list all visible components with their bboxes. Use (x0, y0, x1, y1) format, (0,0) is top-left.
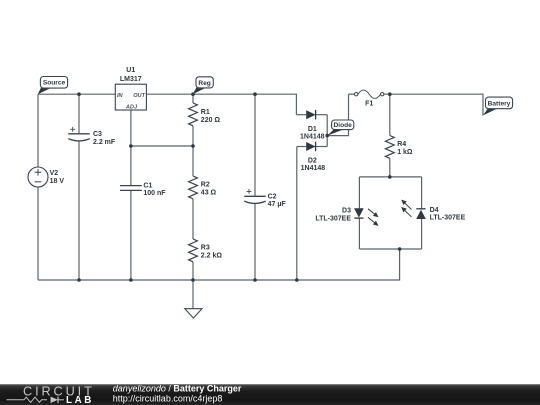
svg-text:Battery: Battery (488, 100, 511, 107)
svg-text:18 V: 18 V (50, 178, 65, 185)
svg-text:U1: U1 (126, 67, 135, 74)
svg-text:LTL-307EE: LTL-307EE (315, 215, 351, 222)
svg-text:1N4148: 1N4148 (300, 133, 325, 140)
svg-text:R3: R3 (201, 245, 210, 252)
svg-text:ADJ: ADJ (125, 105, 138, 111)
svg-text:F1: F1 (365, 100, 373, 107)
svg-text:Reg: Reg (198, 80, 210, 87)
svg-text:Diode: Diode (334, 122, 353, 129)
svg-text:http://circuitlab.com/c4rjep8: http://circuitlab.com/c4rjep8 (113, 394, 223, 404)
svg-text:100 nF: 100 nF (143, 190, 166, 197)
svg-text:R2: R2 (201, 182, 210, 189)
svg-text:D1: D1 (308, 126, 317, 133)
svg-text:D3: D3 (342, 207, 351, 214)
svg-text:IN: IN (117, 93, 124, 99)
svg-text:R4: R4 (397, 141, 406, 148)
svg-text:C3: C3 (93, 131, 102, 138)
svg-text:2.2 kΩ: 2.2 kΩ (201, 252, 223, 259)
svg-text:V2: V2 (50, 170, 59, 177)
svg-text:1N4148: 1N4148 (301, 165, 326, 172)
svg-text:LTL-307EE: LTL-307EE (430, 214, 466, 221)
svg-text:OUT: OUT (133, 93, 145, 99)
svg-text:43 Ω: 43 Ω (201, 190, 217, 197)
svg-text:47 µF: 47 µF (268, 201, 287, 208)
svg-text:2.2 mF: 2.2 mF (93, 139, 116, 146)
svg-text:R1: R1 (201, 109, 210, 116)
svg-text:LAB: LAB (66, 395, 94, 405)
svg-text:D2: D2 (308, 157, 317, 164)
svg-text:D4: D4 (430, 207, 439, 214)
svg-text:LM317: LM317 (120, 76, 142, 83)
svg-text:danyelizondo / Battery Charger: danyelizondo / Battery Charger (113, 384, 242, 394)
svg-text:C2: C2 (268, 193, 277, 200)
svg-text:220 Ω: 220 Ω (201, 117, 221, 124)
svg-text:Source: Source (43, 80, 66, 87)
svg-text:C1: C1 (143, 182, 152, 189)
svg-text:1 kΩ: 1 kΩ (397, 149, 413, 156)
